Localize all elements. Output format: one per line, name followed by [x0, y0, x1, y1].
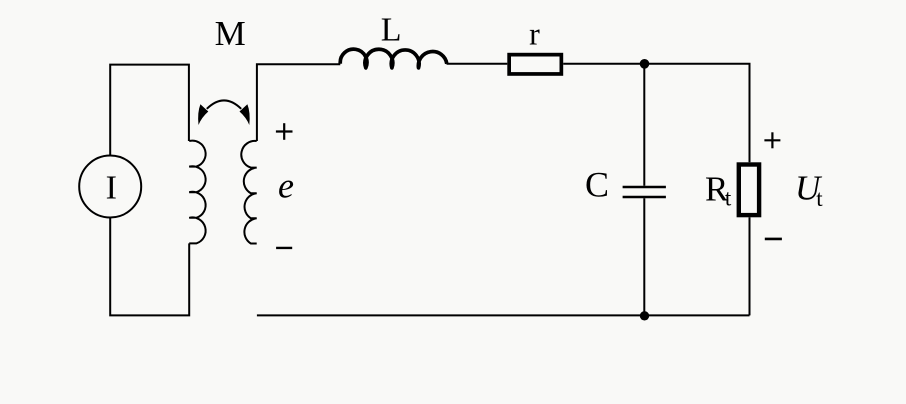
label - (output polarity): [765, 238, 782, 241]
inductor L: [340, 49, 447, 68]
svg-text:L: L: [381, 11, 402, 48]
junction node (top, capacitor tap): [640, 59, 650, 69]
svg-text:C: C: [585, 165, 609, 205]
svg-text:Ut: Ut: [795, 169, 823, 212]
current source I: [79, 156, 141, 218]
wire: capacitor upper lead: [643, 64, 645, 186]
label + (secondary emf polarity): [276, 123, 293, 140]
wire: capacitor lower lead: [643, 198, 645, 315]
svg-text:e: e: [278, 165, 294, 205]
resistor r: [509, 55, 561, 74]
wire: left loop top (source top lead + top wire + primary upper lead): [110, 65, 189, 156]
label - (secondary emf polarity): [276, 247, 292, 249]
wire: bottom wire of output loop: [257, 314, 750, 316]
svg-text:r: r: [529, 15, 540, 51]
wire: left loop bottom (source bottom lead + bottom wire + primary lower lead): [110, 218, 189, 316]
svg-text:I: I: [106, 169, 117, 206]
wire: right lower segment (Rt to bottom): [749, 217, 751, 315]
junction node (bottom, capacitor tap): [640, 311, 649, 320]
transformer primary coil: [189, 141, 205, 244]
wire: secondary upper lead and top wire to inductor: [257, 64, 340, 141]
transformer secondary coil: [241, 141, 256, 244]
wire: top segment between L and r: [447, 63, 508, 65]
label + (output polarity): [764, 132, 780, 148]
capacitor C plates: [623, 187, 666, 197]
wire: top segment from r to right corner and down to Rt: [563, 64, 749, 163]
svg-text:M: M: [215, 14, 246, 53]
svg-text:Rt: Rt: [705, 170, 732, 211]
mutual coupling arrow M (arc with two arrowheads): [198, 100, 250, 125]
resistor Rt: [739, 165, 759, 216]
